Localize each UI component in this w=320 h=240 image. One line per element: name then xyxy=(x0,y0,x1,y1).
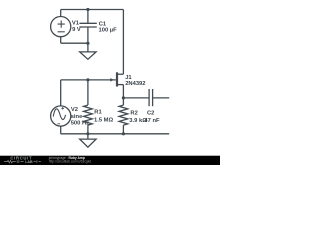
V1 minus sign xyxy=(58,31,65,33)
transistor J1 drain lead xyxy=(118,73,124,75)
svg-text:sine: sine xyxy=(71,114,83,120)
wire C1 bottom stub xyxy=(87,27,89,43)
capacitor C2 left plate xyxy=(148,89,150,106)
wire R2 top stem xyxy=(122,98,124,105)
wire R2 bottom stem xyxy=(122,125,124,134)
node dot bottom of C1 / ground xyxy=(86,42,89,45)
wire R1 top stem xyxy=(87,80,89,105)
wire bottom rail xyxy=(61,133,170,135)
svg-text:R1: R1 xyxy=(94,110,102,116)
wire right rail down to J1 drain xyxy=(122,10,124,75)
svg-text:J1: J1 xyxy=(125,75,132,81)
wire gate from V2 corner to J1 xyxy=(61,79,116,81)
svg-text:LAB: LAB xyxy=(25,160,33,164)
svg-text:R2: R2 xyxy=(130,110,137,116)
node dot bottom rail / R1 / ground xyxy=(86,132,89,135)
ground bottom stem xyxy=(87,134,89,139)
voltage source V2 xyxy=(51,106,71,126)
capacitor C2 right plate xyxy=(152,89,154,106)
svg-text:V2: V2 xyxy=(71,107,78,113)
resistor R1 xyxy=(84,105,93,125)
circuitlab logo squiggle xyxy=(4,160,24,163)
wire R1 bottom stem xyxy=(87,125,89,134)
wire V2 top stem xyxy=(60,80,62,106)
svg-text:47 nF: 47 nF xyxy=(144,118,160,124)
capacitor C1 top plate xyxy=(79,22,96,24)
svg-text:2N4392: 2N4392 xyxy=(125,81,145,87)
svg-text:1.5 MΩ: 1.5 MΩ xyxy=(94,117,113,123)
circuitlab logo end marks xyxy=(34,160,41,163)
capacitor C1 bottom plate xyxy=(79,26,96,28)
V2 sine squiggle xyxy=(53,109,65,120)
V2 plus tiny xyxy=(61,107,64,110)
ground top triangle xyxy=(80,52,96,59)
footer bar xyxy=(0,156,220,165)
transistor J1 channel bar xyxy=(116,72,118,86)
wire J1 source stem xyxy=(122,85,124,98)
svg-text:C2: C2 xyxy=(147,110,154,116)
svg-text:100 µF: 100 µF xyxy=(99,28,118,34)
svg-text:http://circuitlab.com/c/63cgkd: http://circuitlab.com/c/63cgkd xyxy=(49,160,92,164)
wire node to C2 xyxy=(123,97,149,99)
V2 minus tiny xyxy=(57,123,60,125)
svg-text:500 Hz: 500 Hz xyxy=(71,120,89,126)
wire top-loop bottom xyxy=(61,42,88,44)
wire V1 bottom stem xyxy=(60,37,62,44)
transistor J1 gate arrow xyxy=(110,78,114,82)
node dot J1 source / R2 / C2 xyxy=(122,96,125,99)
wire C1 top stub xyxy=(87,10,89,24)
wire V2 bottom stem xyxy=(60,126,62,134)
svg-text:C1: C1 xyxy=(99,21,107,27)
voltage source V1 xyxy=(51,17,71,37)
ground bottom triangle xyxy=(80,139,96,147)
wire V1 top stem xyxy=(60,10,62,17)
transistor J1 source lead xyxy=(118,84,124,86)
ground top stem xyxy=(87,43,89,52)
node dot bottom rail / R2 xyxy=(122,132,125,135)
node dot gate wire / R1 xyxy=(86,78,89,81)
svg-text:V1: V1 xyxy=(72,21,80,27)
node dot top wire / C1 xyxy=(86,8,89,11)
wire top rail V1 to J1 drain xyxy=(61,9,124,11)
V1 plus sign xyxy=(58,21,65,28)
resistor R2 xyxy=(119,105,128,125)
wire C2 to output xyxy=(153,97,170,99)
svg-text:9 V: 9 V xyxy=(72,27,81,33)
